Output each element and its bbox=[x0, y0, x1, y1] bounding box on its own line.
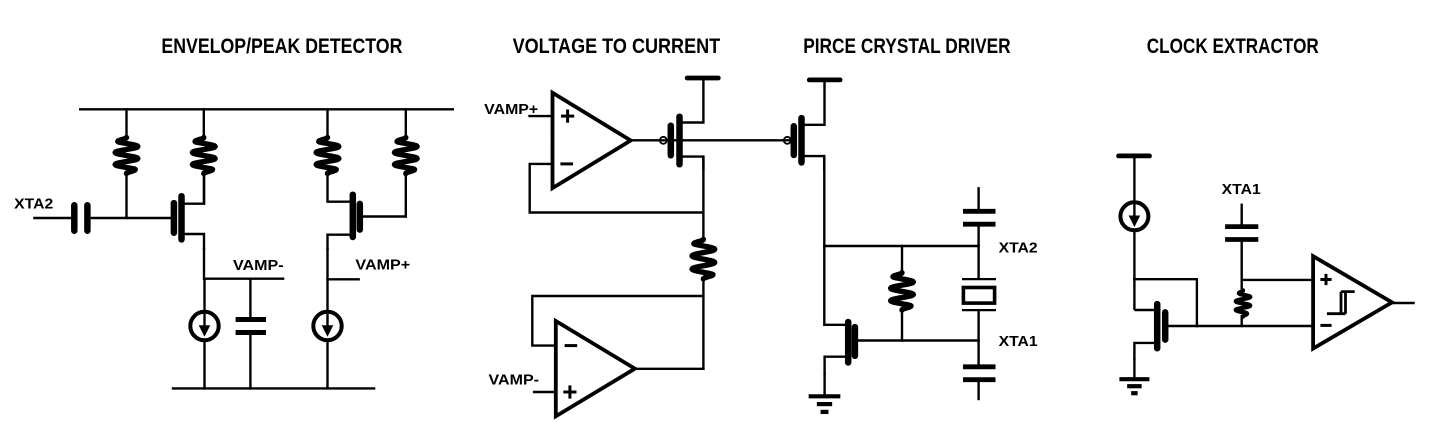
wire VAMP- node to I1 bbox=[203, 278, 205, 312]
VDD rail (top supply wire) bbox=[79, 108, 454, 110]
wire C3 to XTA2 node bbox=[977, 226, 979, 248]
resistor R7 bbox=[1236, 290, 1250, 316]
transistor M1 (NMOS, gate left) bbox=[171, 203, 178, 233]
wire U3 output bbox=[1390, 302, 1415, 304]
wire VDD stub to I3 bbox=[1133, 156, 1135, 203]
op-amp U2 bbox=[556, 321, 635, 416]
wire R3 to M2 drain bbox=[328, 172, 352, 202]
transistor M5 (PMOS, bubble gate) bbox=[660, 137, 667, 144]
wire rail to R1 bbox=[125, 108, 127, 139]
capacitor C5 (XTA1 coupling cap) bbox=[1225, 224, 1258, 229]
resistor R5 bbox=[692, 239, 715, 279]
svg-text:VAMP+: VAMP+ bbox=[355, 257, 410, 274]
transistor M3 (NMOS, gate right) bbox=[845, 322, 852, 363]
crystal X1 (quartz) bbox=[962, 278, 996, 280]
svg-text:VAMP-: VAMP- bbox=[489, 371, 540, 388]
wire VAMP+ node to I2 bbox=[326, 278, 328, 311]
op-amp U1 bbox=[553, 93, 631, 188]
resistor R4 bbox=[395, 138, 418, 174]
wire + node to R7 bbox=[1240, 279, 1242, 292]
node VAMP+ wire bbox=[328, 278, 360, 280]
wire M6 drain to M3 drain bbox=[823, 156, 825, 326]
wire XTA1 stub to C5 bbox=[1240, 204, 1242, 228]
svg-text:CLOCK EXTRACTOR: CLOCK EXTRACTOR bbox=[1147, 35, 1319, 58]
resistor R6 bbox=[891, 273, 914, 310]
wire U1 feedback (inverting input to drain node) bbox=[530, 164, 704, 213]
wire C3 top stub bbox=[977, 187, 979, 210]
resistor R3 bbox=[316, 138, 339, 174]
wire C5 to U3 + node bbox=[1240, 241, 1242, 281]
wire C1 to M1 gate bbox=[91, 217, 172, 219]
svg-text:XTA2: XTA2 bbox=[14, 196, 53, 213]
wire U1 output to M5 gate bubble bbox=[629, 139, 664, 141]
wire XTA1 node to C4 bbox=[977, 339, 979, 365]
VDD stub bar (section 2) bbox=[687, 76, 718, 81]
wire VAMP+ to U1 noninverting input bbox=[528, 115, 554, 117]
wire rail to R4 bbox=[405, 108, 407, 139]
wire R2 to M1 drain bbox=[203, 172, 205, 205]
wire R1 to M1 gate node bbox=[125, 172, 127, 219]
wire R7 to bias line bbox=[1240, 315, 1242, 327]
wire M5 drain to R5 bbox=[702, 157, 704, 241]
wire U2 feedback (inverting input to R5 bottom) bbox=[532, 296, 704, 346]
wire R4 to M2 gate bbox=[405, 172, 407, 218]
wire XTA2 to C1 bbox=[33, 217, 72, 219]
wire crystal to XTA1 node bbox=[977, 310, 979, 342]
VDD stub bar (section 4) bbox=[1119, 153, 1150, 158]
node bias wire to U3 inverting input bbox=[1164, 325, 1315, 327]
VDD stub bar (section 3) bbox=[809, 78, 840, 83]
svg-text:VOLTAGE TO CURRENT: VOLTAGE TO CURRENT bbox=[513, 35, 721, 58]
node XTA1 wire (M3 gate) bbox=[855, 339, 979, 341]
capacitor C2 (hold cap) bbox=[236, 317, 266, 322]
current source I3 bbox=[1120, 202, 1148, 230]
resistor R2 bbox=[193, 138, 216, 174]
ground symbol GND2 bbox=[1119, 377, 1149, 381]
svg-text:XTA1: XTA1 bbox=[999, 333, 1038, 350]
wire M3 source to ground bbox=[823, 373, 825, 398]
wire VAMP- to U2 noninverting input bbox=[533, 391, 557, 393]
wire I3 to bias node bbox=[1133, 231, 1135, 280]
node XTA2 wire bbox=[823, 245, 979, 247]
wire M1 source to VAMP- node bbox=[203, 248, 205, 280]
current source I1 bbox=[190, 312, 218, 340]
wire M4 source to ground bbox=[1133, 358, 1135, 381]
wire I2 to bottom rail bbox=[326, 341, 328, 390]
ground symbol GND1 bbox=[809, 394, 841, 398]
svg-text:PIRCE CRYSTAL DRIVER: PIRCE CRYSTAL DRIVER bbox=[803, 35, 1011, 58]
wire rail to R3 bbox=[326, 108, 328, 139]
wire XTA2 node to crystal bbox=[977, 245, 979, 280]
wire rail to R2 bbox=[203, 108, 205, 139]
wire U2 output bbox=[633, 368, 704, 370]
wire C4 bottom stub bbox=[977, 381, 979, 400]
transistor M2 (NMOS, gate right) bbox=[350, 195, 357, 237]
wire XTA2 node to R6 bbox=[901, 245, 903, 274]
wire C2 to bottom rail bbox=[249, 333, 251, 390]
svg-text:ENVELOP/PEAK DETECTOR: ENVELOP/PEAK DETECTOR bbox=[161, 35, 402, 58]
transistor M4 (NMOS diode-connected, gate right) bbox=[1154, 304, 1161, 348]
comparator U3 (schmitt trigger) bbox=[1313, 256, 1392, 348]
wire I1 to bottom rail bbox=[203, 341, 205, 390]
wire VAMP- node to C2 bbox=[249, 278, 251, 320]
svg-text:XTA1: XTA1 bbox=[1222, 181, 1261, 198]
svg-text:XTA2: XTA2 bbox=[999, 240, 1038, 257]
node U3 noninverting input wire bbox=[1241, 279, 1315, 281]
wire bias node to M4 drain bbox=[1133, 278, 1135, 310]
capacitor C4 (XTA1 load cap) bbox=[963, 364, 996, 369]
wire R6 to XTA1 node bbox=[901, 309, 903, 342]
capacitor C1 (input coupling cap) bbox=[71, 205, 78, 230]
transistor M6 (PMOS, bubble gate) bbox=[784, 137, 791, 144]
wire gate line M5 to M6 (current mirror gates) bbox=[663, 139, 791, 141]
wire R5 bottom to U2 output bbox=[702, 278, 704, 371]
current source I2 bbox=[313, 312, 341, 340]
ground rail (bottom wire) bbox=[172, 387, 375, 389]
resistor R1 bbox=[115, 138, 138, 174]
svg-text:VAMP-: VAMP- bbox=[233, 257, 284, 274]
capacitor C3 (XTA2 load cap) bbox=[963, 209, 996, 214]
wire M2 source to VAMP+ node bbox=[326, 248, 328, 280]
node VAMP- wire bbox=[204, 278, 284, 280]
wire bias loop (I3 to M4 gate) bbox=[1133, 279, 1197, 327]
